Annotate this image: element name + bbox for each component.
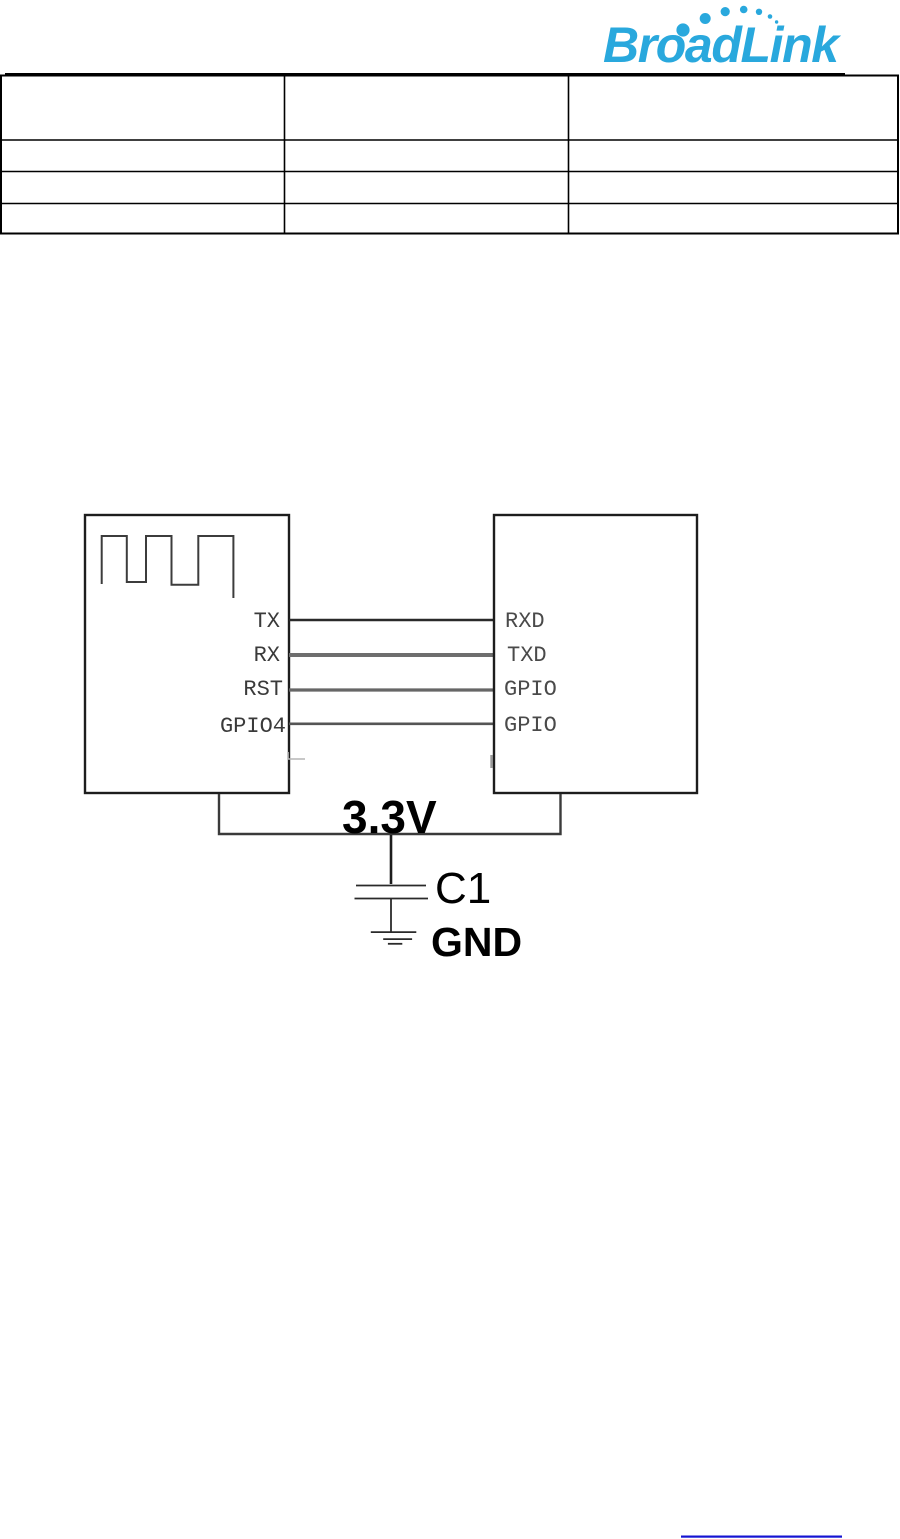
svg-text:RXD: RXD	[505, 609, 545, 634]
BroadLink logo wordmark	[603, 17, 841, 73]
antenna square-wave symbol inside U1	[102, 536, 234, 598]
leftover faint mark near U2 lower-left	[490, 755, 492, 768]
wire TX to RXD	[289, 619, 494, 621]
wire GPIO4 to GPIO	[289, 722, 494, 725]
wire rail to capacitor C1	[390, 835, 393, 884]
document table grid	[1, 76, 898, 234]
leftover faint mark near U1 lower-right	[288, 752, 305, 759]
svg-text:RST: RST	[243, 677, 283, 702]
footer hyperlink rule	[681, 1536, 842, 1538]
wire RX to TXD	[289, 653, 494, 657]
header underline rule	[5, 73, 845, 76]
3.3V power rail wire	[219, 794, 561, 834]
svg-text:3.3V: 3.3V	[342, 791, 437, 843]
svg-text:RX: RX	[254, 643, 280, 668]
capacitor C1 plates	[356, 885, 426, 887]
ground symbol	[371, 932, 417, 944]
BroadLink logo dot arc	[676, 6, 778, 37]
svg-text:GPIO: GPIO	[504, 677, 557, 702]
svg-text:GND: GND	[431, 919, 522, 965]
module U1 (WiFi module, left box)	[85, 515, 289, 793]
wire capacitor to ground	[390, 899, 392, 932]
svg-text:C1: C1	[435, 864, 491, 913]
MCU U2 (right box)	[494, 515, 697, 793]
wire RST to GPIO	[289, 688, 494, 691]
svg-text:TX: TX	[254, 609, 280, 634]
svg-text:GPIO: GPIO	[504, 713, 557, 738]
svg-text:BroadLink: BroadLink	[603, 17, 841, 73]
svg-text:TXD: TXD	[507, 643, 547, 668]
svg-text:GPIO4: GPIO4	[220, 714, 286, 739]
